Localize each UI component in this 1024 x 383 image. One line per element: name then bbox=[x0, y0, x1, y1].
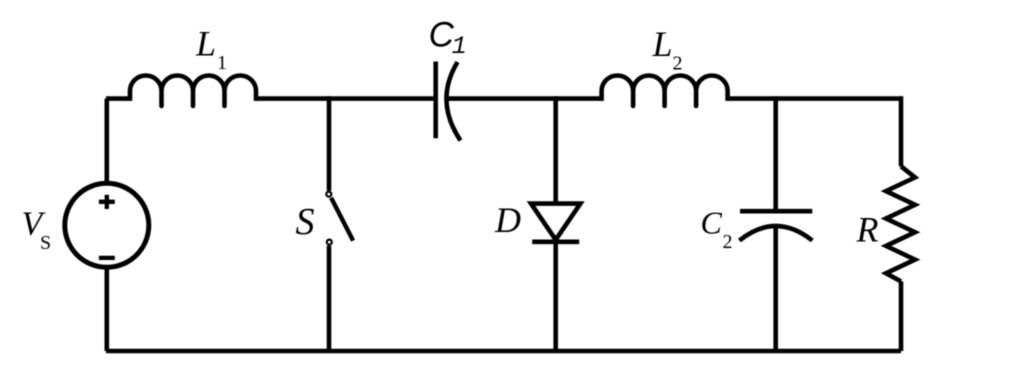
wire: switch branch lower bbox=[327, 246, 332, 351]
wire: right branch above resistor bbox=[899, 96, 904, 166]
svg-text:2: 2 bbox=[673, 53, 683, 75]
label L1 bbox=[195, 24, 227, 75]
svg-text:R: R bbox=[856, 210, 879, 250]
switch S bottom contact circle bbox=[327, 240, 332, 245]
switch S blade bbox=[331, 198, 353, 241]
voltage source minus sign bbox=[99, 256, 115, 260]
svg-text:D: D bbox=[494, 200, 521, 240]
wire: C2 branch lower bbox=[773, 225, 778, 352]
diode D triangle bbox=[531, 204, 580, 240]
wire: switch branch upper bbox=[327, 96, 332, 191]
wire: diode branch lower bbox=[553, 242, 558, 351]
diode D cathode bar bbox=[532, 240, 579, 245]
inductor L1 bbox=[130, 75, 256, 106]
capacitor C1 left plate bbox=[433, 62, 438, 139]
wire: top rail from L2 to right corner bbox=[728, 96, 901, 101]
svg-text:L: L bbox=[195, 24, 216, 64]
wire: top rail from L1 to capacitor C1 left plate bbox=[256, 96, 433, 101]
wire: C2 branch upper bbox=[773, 96, 778, 211]
svg-text:1: 1 bbox=[452, 32, 467, 61]
svg-text:2: 2 bbox=[723, 231, 733, 253]
svg-text:1: 1 bbox=[217, 52, 227, 74]
wire: bottom rail bbox=[106, 349, 901, 354]
label C2 bbox=[701, 204, 733, 253]
wire: right branch below resistor bbox=[899, 281, 904, 351]
wire: left branch above voltage source bbox=[105, 99, 110, 182]
svg-text:S: S bbox=[40, 232, 51, 254]
wire: diode branch upper bbox=[553, 96, 558, 203]
svg-text:S: S bbox=[296, 201, 315, 243]
voltage source VS circle bbox=[65, 183, 149, 267]
wire: top rail left segment from source corner to L1 bbox=[106, 96, 131, 101]
label L2 bbox=[652, 24, 683, 75]
resistor R zigzag bbox=[886, 166, 915, 281]
wire: top rail from C1 to L2 (through switch/diode junctions) bbox=[447, 96, 603, 101]
voltage source plus sign bbox=[99, 195, 115, 209]
capacitor C2 top plate bbox=[740, 209, 812, 214]
capacitor C2 bottom curved plate bbox=[739, 226, 812, 241]
label C1 bbox=[429, 15, 467, 61]
svg-text:L: L bbox=[652, 24, 673, 64]
capacitor C1 right curved plate bbox=[446, 62, 460, 141]
inductor L2 bbox=[602, 75, 728, 106]
switch S top contact circle bbox=[326, 192, 331, 197]
svg-text:C: C bbox=[701, 204, 723, 240]
label VS bbox=[22, 206, 52, 255]
wire: left branch below voltage source bbox=[105, 269, 110, 351]
